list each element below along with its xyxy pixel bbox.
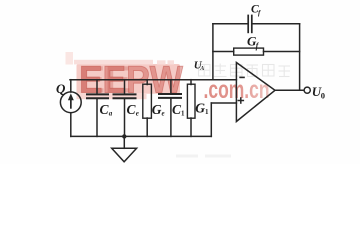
- capacitor Ce plates: [113, 93, 137, 95]
- wire: Gf branch right: [264, 51, 300, 53]
- resistor Ge body: [143, 84, 152, 118]
- wire: Cf branch left: [213, 23, 248, 25]
- wire: Cf branch right: [252, 23, 300, 25]
- current source arrow: [68, 93, 74, 108]
- resistor Gf body: [234, 48, 264, 55]
- wire: feedback left riser: [212, 24, 214, 80]
- op-amp plus sign: [238, 97, 245, 104]
- capacitor C1 plates: [158, 93, 182, 95]
- bottom faint caption smudges: [176, 155, 231, 158]
- wire: capacitor C1 bottom lead: [170, 99, 172, 136]
- svg-text:e: e: [136, 110, 139, 118]
- svg-text:1: 1: [181, 110, 185, 118]
- svg-text:0: 0: [321, 90, 325, 100]
- wire: current source top lead: [70, 80, 72, 92]
- op-amp minus sign: [239, 76, 245, 78]
- svg-text:1: 1: [205, 108, 209, 116]
- svg-text:e: e: [162, 110, 165, 118]
- wire: output wire: [275, 89, 304, 91]
- capacitor Ca plates: [86, 93, 109, 95]
- wire: capacitor Ca top stub: [96, 80, 98, 94]
- watermark gray chinese char 2: [214, 64, 227, 77]
- svg-text:A: A: [199, 66, 204, 72]
- ground symbol: [112, 148, 137, 162]
- wire: ground stub: [123, 136, 125, 148]
- wire: current source bottom lead: [70, 113, 72, 137]
- wire: feedback right riser: [299, 24, 301, 90]
- watermark gray chinese char 4: [247, 65, 259, 77]
- wire: top rail (summing node): [70, 79, 236, 81]
- capacitor Cf plates: [248, 15, 252, 34]
- svg-text:G: G: [152, 102, 162, 117]
- wire: resistor Ge bottom lead: [146, 118, 148, 136]
- wire: capacitor C1 top stub: [170, 80, 172, 94]
- op-amp U1 triangle: [236, 63, 275, 122]
- watermark gray chinese char 3: [231, 65, 243, 77]
- wire: bottom ground rail: [71, 135, 212, 137]
- watermark pink panel: [77, 64, 181, 94]
- wire: capacitor Ca bottom lead: [96, 99, 98, 136]
- wire: resistor Ge top stub: [146, 80, 148, 85]
- wire: capacitor Ce top stub: [124, 80, 126, 94]
- svg-text:a: a: [109, 110, 113, 118]
- resistor G1 body: [187, 84, 195, 118]
- watermark gray chinese char 6: [279, 66, 291, 77]
- watermark gray chinese char 1: [199, 65, 211, 77]
- wire: noninverting input riser: [210, 103, 212, 136]
- wire: resistor G1 bottom lead: [190, 118, 192, 136]
- svg-text:G: G: [195, 100, 205, 115]
- wire: noninverting input wire: [211, 102, 236, 104]
- output terminal circle: [304, 87, 310, 93]
- junction dot at ground node: [122, 134, 126, 138]
- wire: resistor G1 top stub: [190, 80, 192, 85]
- svg-text:Q: Q: [56, 81, 66, 96]
- wire: Gf branch left: [213, 51, 234, 53]
- wire: capacitor Ce bottom lead: [124, 99, 126, 136]
- watermark gray chinese char 5: [263, 65, 275, 77]
- current source Q circle: [60, 92, 81, 113]
